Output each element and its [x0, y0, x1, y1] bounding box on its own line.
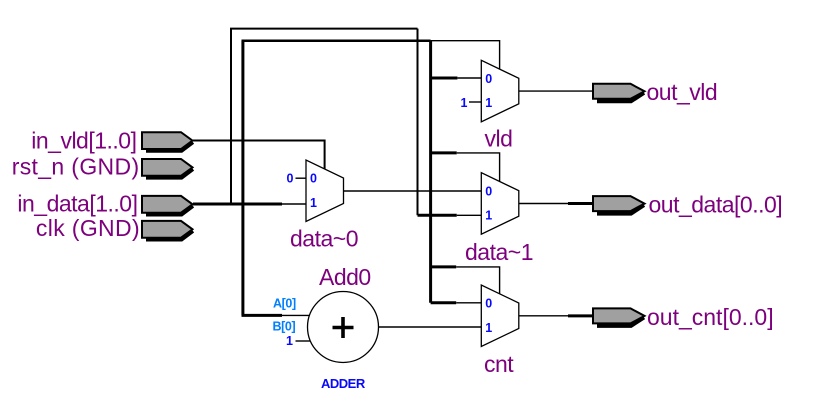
mux vld: [481, 60, 519, 122]
wire stub to cnt input 0 (thin): [456, 302, 481, 304]
svg-text:rst_n (GND): rst_n (GND): [12, 154, 140, 180]
svg-text:clk (GND): clk (GND): [36, 215, 140, 241]
wire in_vld from pin to data~0 select: [193, 141, 325, 169]
svg-text:out_data[0..0]: out_data[0..0]: [649, 192, 783, 218]
wire cnt output (thin): [519, 315, 568, 317]
wire inner right vertical bus: [429, 41, 432, 303]
mux data~0: [306, 160, 344, 222]
svg-text:0: 0: [485, 72, 492, 86]
wire data~1 select (thin): [457, 153, 500, 182]
wire data~1 output to out_data pin (thick): [568, 202, 594, 205]
svg-text:B[0]: B[0]: [273, 319, 296, 333]
svg-text:0: 0: [287, 172, 294, 186]
wire vld constant 1 dash: [469, 101, 481, 103]
wire data~1 output (thin): [519, 203, 568, 205]
svg-text:ADDER: ADDER: [321, 376, 366, 391]
output pin out_cnt[0..0]: [593, 308, 645, 326]
svg-text:1: 1: [485, 321, 492, 335]
wire data~0 constant 0 dash: [296, 177, 307, 179]
wire cnt select stub (thick): [431, 265, 457, 268]
wire stub to vld input 0 (thick): [431, 77, 458, 80]
svg-text:0: 0: [310, 172, 317, 186]
wire stub to vld input 0 (thin): [457, 77, 481, 79]
wire in_data bus from pin (thick): [193, 203, 282, 206]
wire data~1 select stub (thick): [431, 151, 457, 154]
svg-text:in_data[1..0]: in_data[1..0]: [17, 191, 137, 217]
svg-text:1: 1: [310, 196, 317, 210]
wire inner top horizontal: [242, 39, 431, 42]
wire outer route up from in_data: [230, 29, 232, 204]
wire in_data bit to data~0 input 1 (thin): [282, 203, 306, 205]
svg-text:1: 1: [461, 96, 468, 110]
wire stub to data~1 input 1 (thin): [457, 214, 482, 216]
svg-text:out_vld: out_vld: [647, 79, 718, 105]
output pin out_vld: [593, 84, 645, 102]
svg-text:cnt: cnt: [484, 351, 514, 377]
input pin clk: [142, 221, 193, 240]
wire outer right vertical: [417, 29, 419, 216]
wire adder A input (thin): [282, 314, 310, 316]
wire outer top horizontal: [230, 28, 418, 30]
wire inner route vertical from in_data down to adder A: [241, 41, 244, 316]
svg-text:data~1: data~1: [465, 239, 533, 265]
output pin out_data[0..0]: [593, 196, 645, 214]
svg-text:1: 1: [485, 96, 492, 110]
wire cnt output to out_cnt pin (thick): [568, 314, 594, 317]
svg-text:1: 1: [286, 334, 293, 348]
svg-text:1: 1: [485, 209, 492, 223]
svg-text:in_vld[1..0]: in_vld[1..0]: [31, 127, 136, 153]
input pin rst_n: [142, 159, 193, 178]
adder Add0: [308, 292, 379, 363]
wire adder A input (thick): [242, 314, 283, 317]
svg-text:vld: vld: [485, 125, 513, 151]
mux data~1: [481, 173, 519, 235]
svg-text:Add0: Add0: [319, 264, 371, 290]
svg-text:0: 0: [485, 184, 492, 198]
wire stub to data~1 input 1 (thick): [418, 214, 457, 217]
wire vld output to out_vld pin: [519, 90, 594, 92]
mux cnt: [481, 285, 519, 347]
svg-text:A[0]: A[0]: [273, 297, 296, 311]
input pin in_vld[1..0]: [142, 132, 193, 151]
wire adder output to cnt input 1: [379, 326, 482, 328]
svg-text:0: 0: [485, 297, 492, 311]
input pin in_data[1..0]: [142, 196, 193, 215]
svg-text:data~0: data~0: [290, 225, 358, 251]
wire cnt select (thin): [456, 267, 499, 294]
wire adder B constant dash: [296, 340, 311, 342]
wire data~0 output to data~1 input 0: [344, 190, 482, 192]
wire stub to cnt input 0 (thick): [431, 301, 457, 304]
wire vld select (thin): [431, 41, 500, 69]
svg-text:out_cnt[0..0]: out_cnt[0..0]: [647, 304, 774, 330]
